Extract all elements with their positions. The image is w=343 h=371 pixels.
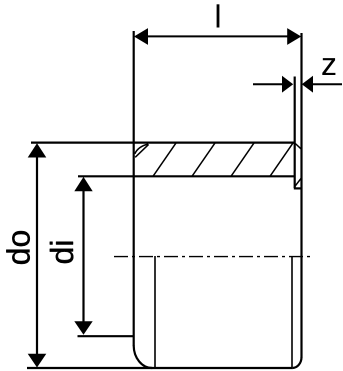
inner bore line lower-right — [291, 256, 293, 367]
mouth fillet arc — [135, 144, 148, 154]
label z — [322, 58, 335, 75]
bottom-left rounded corner — [134, 346, 153, 369]
dimension di: bottom arrow — [74, 321, 92, 335]
dimension do: top arrow — [28, 143, 47, 157]
centerline (dash-dot axis) — [114, 256, 313, 258]
dimension z: left leader line — [253, 83, 283, 85]
dimension di: top arrow — [74, 177, 92, 191]
label di (rotated) — [50, 242, 74, 263]
dimension z: right leader line — [313, 83, 342, 85]
body bottom edge (also extension line for do) — [27, 367, 293, 369]
mouth fillet straight line — [135, 144, 148, 157]
dimension l: left arrow — [134, 28, 148, 45]
hatch line 4 — [270, 143, 293, 177]
lip top chamfer diagonal — [295, 144, 301, 150]
label l — [217, 4, 220, 27]
hatch segment in lip gap — [294, 178, 301, 187]
dimension di: line — [82, 184, 84, 328]
dimension l: line — [141, 35, 294, 37]
dimension do: bottom arrow — [28, 354, 47, 368]
band bottom line / bore surface (also extension line for di) — [78, 175, 295, 177]
socket lip inner wall (also extension line for z) — [294, 77, 296, 189]
dimension z: right arrow (points left) — [302, 76, 313, 93]
hatch line 1 — [153, 143, 176, 177]
socket lip bottom step — [294, 187, 302, 189]
body left edge (also extension line for l) — [133, 31, 135, 346]
inner bore line lower-left — [154, 256, 156, 367]
body right edge (also extension line for l and z) — [300, 33, 302, 358]
hatching of sectioned wall — [135, 143, 301, 187]
hatch line 2 — [192, 143, 215, 177]
hatch line 3 — [231, 143, 254, 177]
dimension l: right arrow — [287, 28, 301, 45]
dimension do: line — [36, 150, 38, 361]
dimension z: left arrow (points right) — [282, 76, 293, 93]
dimension di: bottom extension line — [78, 335, 134, 337]
label do (rotated) — [6, 231, 30, 264]
band top line / outer surface (also extension line for do) — [31, 142, 296, 144]
bottom-right rounded corner — [293, 357, 302, 368]
